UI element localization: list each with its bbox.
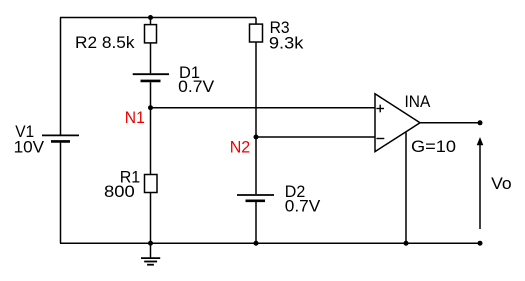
svg-text:Vo: Vo [491,175,512,193]
wire D2 to bottom rail [255,202,257,244]
wire op-amp output [420,122,480,124]
wire top rail [60,17,256,19]
svg-text:N1: N1 [125,109,145,127]
Vo arrow [477,137,484,229]
svg-text:N2: N2 [230,138,251,156]
svg-text:0.7V: 0.7V [178,78,214,96]
op-amp + input symbol [376,105,384,113]
battery V1 [42,135,79,141]
svg-text:9.3k: 9.3k [269,34,304,52]
wire N1 to R1 [150,108,152,175]
node output dot [478,120,483,125]
junction op-amp pin bottom [404,241,409,246]
wire left rail upper [60,18,62,135]
node N1 [148,105,153,110]
junction at R2 top [148,15,153,20]
wire R1 to bottom rail [150,193,152,244]
junction D2 bottom [254,241,259,246]
wire D1 to N1 [150,82,152,108]
wire R3 to N2 and D2 [255,42,257,194]
battery D1 [133,74,169,81]
op-amp - input symbol [376,138,384,140]
junction R1 bottom [148,241,153,246]
wire N1 to op-amp + input [151,107,376,109]
wire bottom rail [60,242,480,244]
op-amp U1 INA triangle [375,94,420,152]
wire N2 to op-amp - input [256,136,375,138]
ground [141,243,160,265]
battery D2 [237,195,274,201]
svg-text:G=10: G=10 [411,138,456,156]
resistor R2 [145,25,157,43]
svg-text:INA: INA [405,93,431,111]
svg-text:0.7V: 0.7V [285,198,321,216]
resistor R3 [250,24,263,42]
node N2 [254,135,259,140]
svg-text:10V: 10V [14,139,44,157]
svg-text:800: 800 [104,183,135,201]
wire left rail lower [60,143,62,244]
resistor R1 [145,175,158,193]
wire R3 top stub [255,18,257,25]
wire op-amp ground pin [405,132,407,243]
svg-text:R2 8.5k: R2 8.5k [75,34,135,52]
junction bottom rail right end [478,241,483,246]
wire R2 top stub [150,18,152,25]
wire R2 to D1 [150,43,152,73]
